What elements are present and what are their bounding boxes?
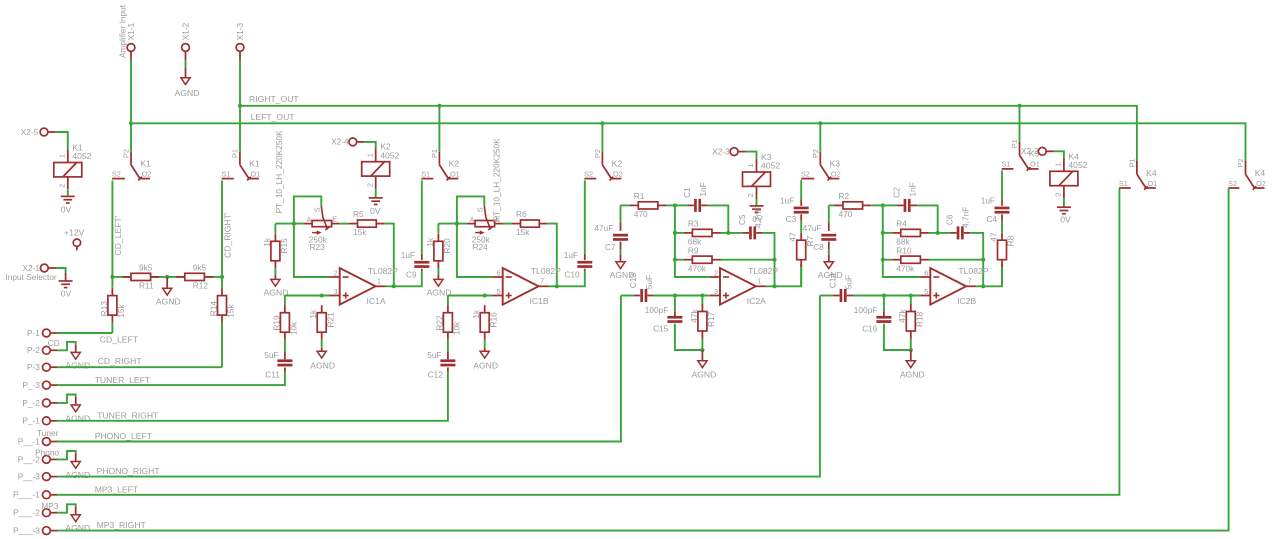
svg-text:AGND: AGND [65, 523, 90, 533]
svg-text:TUNER_RIGHT: TUNER_RIGHT [97, 411, 159, 421]
svg-text:Amplifier Input: Amplifier Input [117, 4, 127, 58]
junction [320, 293, 324, 297]
svg-text:R23: R23 [310, 242, 326, 252]
wire S loop R24 [457, 196, 484, 223]
net CD_LEFT_prime [111, 181, 113, 288]
wire LEFT_OUT to K2 P2 [601, 123, 603, 151]
net LEFT_OUT [131, 123, 1246, 162]
label MP3 [41, 501, 58, 511]
svg-text:2: 2 [1054, 193, 1063, 197]
wire X1-1 to LEFT_OUT [130, 60, 132, 124]
svg-text:O2: O2 [142, 169, 152, 178]
ground AGND R15 [264, 275, 289, 297]
svg-text:R15: R15 [279, 238, 289, 254]
wire R8 bottom gap [1001, 267, 1003, 286]
capacitor C13 [628, 273, 654, 302]
svg-text:470k: 470k [688, 263, 707, 273]
wire X2-1 to 0V [56, 268, 66, 273]
op-amp IC2A [710, 266, 779, 306]
switch K1 P2/S2/O2 [112, 149, 151, 180]
wire R15 to AGND [274, 268, 276, 275]
svg-text:1uF: 1uF [401, 250, 415, 260]
switch K2 P1/S1/O1 [421, 149, 460, 180]
svg-text:P-1: P-1 [27, 328, 40, 338]
svg-text:AGND: AGND [156, 297, 181, 307]
svg-text:470: 470 [839, 209, 853, 219]
svg-text:47uF: 47uF [594, 223, 613, 233]
svg-text:R17: R17 [706, 311, 716, 327]
ground 0V K1 [61, 196, 75, 214]
wire X2-3 to K3 coil [746, 152, 757, 159]
svg-text:4052: 4052 [761, 161, 780, 171]
wire corner to C8 [828, 205, 830, 222]
svg-text:TL082P: TL082P [748, 266, 778, 276]
svg-text:Tuner: Tuner [37, 428, 59, 438]
svg-text:O1: O1 [1148, 179, 1158, 188]
resistor R7 [788, 232, 815, 267]
resistor R2 [835, 191, 872, 219]
label Input Selector [6, 272, 57, 282]
connector pin P_-3 [22, 380, 57, 390]
junction [981, 258, 985, 262]
switch K4 P2/S2/O2 [1228, 158, 1266, 189]
capacitor C5 [737, 207, 763, 240]
svg-text:C14: C14 [827, 273, 837, 289]
svg-text:O2: O2 [613, 169, 623, 178]
resistor R18 [897, 304, 924, 339]
svg-text:C8: C8 [813, 242, 824, 252]
net MP3_RIGHT [57, 189, 1229, 531]
junction [110, 275, 114, 279]
wire noninv input IC1A [285, 295, 330, 297]
capacitor C1 [682, 182, 708, 212]
svg-text:PT_10_LH_220K250K: PT_10_LH_220K250K [274, 130, 284, 213]
wire R1 left [621, 204, 630, 206]
svg-text:K1: K1 [249, 158, 260, 168]
junction [909, 293, 913, 297]
svg-text:X2-2: X2-2 [1021, 146, 1039, 156]
svg-text:PHONO_LEFT: PHONO_LEFT [95, 431, 153, 441]
svg-text:P-2: P-2 [27, 345, 40, 355]
wire R17 top [701, 296, 703, 305]
svg-text:R24: R24 [473, 242, 489, 252]
capacitor C16 [854, 305, 892, 333]
resistor R5 [349, 209, 385, 237]
wire inverting input IC1A [294, 224, 330, 277]
wire RIGHT_OUT to K1 P1 [239, 106, 241, 152]
resistor R4 [892, 219, 929, 247]
svg-text:7: 7 [540, 277, 544, 286]
svg-text:IC2B: IC2B [957, 296, 976, 306]
svg-text:R8: R8 [1006, 235, 1016, 246]
junction [881, 258, 885, 262]
wire R21 to AGND [321, 340, 323, 348]
op-amp IC2B [920, 266, 989, 306]
op-amp IC1A [330, 266, 399, 306]
ground AGND R16 [473, 348, 498, 370]
svg-text:15k: 15k [116, 303, 126, 317]
svg-text:100pF: 100pF [854, 305, 878, 315]
svg-text:X1-3: X1-3 [235, 22, 245, 40]
svg-text:X2-5: X2-5 [21, 127, 39, 137]
wire S loop R23 [294, 196, 321, 223]
junction [555, 284, 559, 288]
svg-text:2: 2 [334, 268, 338, 277]
wire R17 bottom [701, 339, 703, 351]
svg-text:K1: K1 [140, 158, 151, 168]
ground AGND C7 [610, 254, 635, 280]
svg-text:1: 1 [365, 153, 374, 157]
connector pin X2-1 [22, 263, 56, 273]
junction [392, 284, 396, 288]
svg-text:R1: R1 [634, 191, 645, 201]
svg-text:CD_LEFT': CD_LEFT' [113, 215, 123, 255]
resistor R16 [471, 305, 498, 340]
wire R19 to cap [284, 340, 286, 352]
svg-text:C9: C9 [406, 270, 417, 280]
wire feedback rail IC2B [883, 205, 920, 277]
wire C8 to AGND [828, 249, 830, 254]
wire C6 corner [970, 233, 983, 260]
wire R2 left [829, 204, 835, 206]
capacitor C11 [264, 350, 292, 379]
wire C16 bottom [884, 324, 911, 350]
svg-text:4052: 4052 [72, 151, 91, 161]
svg-text:AGND: AGND [65, 470, 90, 480]
svg-text:1nF: 1nF [908, 182, 918, 196]
wire X2-4 to K2 coil [365, 142, 376, 149]
svg-text:AGND: AGND [310, 360, 335, 370]
potentiometer R24 [467, 206, 503, 252]
svg-text:AGND: AGND [175, 88, 200, 98]
capacitor C12 [427, 350, 455, 379]
wire X2-1 pin lead [65, 273, 67, 281]
wire K2 coil to 0V [375, 189, 377, 198]
wire R9 right [721, 259, 775, 261]
switch K3 P2/S2/O2 [801, 149, 841, 180]
connector pin X2-3 [712, 146, 746, 156]
svg-text:O2: O2 [831, 169, 841, 178]
wire pot node R20 [438, 223, 466, 225]
svg-text:Input Selector: Input Selector [6, 272, 57, 282]
connector pin X1-2 [181, 22, 191, 59]
svg-text:10k: 10k [452, 321, 462, 335]
svg-text:4052: 4052 [380, 150, 399, 160]
svg-text:O2: O2 [1256, 179, 1266, 188]
label Tuner [37, 428, 59, 438]
net TUNER_LEFT [57, 372, 285, 386]
svg-text:CD: CD [48, 338, 60, 348]
svg-text:LEFT_OUT: LEFT_OUT [251, 112, 296, 122]
ground jog AGND MP3 [57, 504, 90, 533]
svg-text:X2-3: X2-3 [712, 146, 730, 156]
junction [1017, 104, 1021, 108]
resistor R9 [684, 245, 721, 273]
svg-text:S1: S1 [222, 169, 231, 178]
svg-text:R6: R6 [516, 209, 527, 219]
svg-text:AGND: AGND [691, 370, 716, 380]
wire pot E to R6 [503, 223, 512, 225]
svg-text:C3: C3 [786, 214, 797, 224]
ground AGND divider [156, 277, 181, 307]
wire C16 drop [883, 296, 885, 312]
net PHONO_LEFT [57, 296, 621, 442]
svg-text:C2: C2 [891, 187, 901, 198]
svg-text:S1: S1 [1002, 160, 1011, 169]
label CD_LEFT' [113, 215, 123, 255]
ground AGND C8 [818, 254, 843, 280]
svg-text:TL082P: TL082P [368, 266, 398, 276]
ground AGND R20 [427, 275, 452, 297]
label CD [48, 338, 60, 348]
junction [818, 121, 822, 125]
net RIGHT_OUT [240, 106, 1137, 162]
svg-text:O1: O1 [251, 169, 261, 178]
wire output IC2B [976, 264, 1002, 286]
wire C7 to AGND [620, 249, 622, 254]
svg-text:C6: C6 [944, 214, 954, 225]
wire X2-5 to K1 coil [56, 132, 68, 149]
label CD_LEFT [100, 335, 139, 345]
label Amplifier Input [117, 4, 127, 58]
svg-text:15k: 15k [516, 227, 530, 237]
svg-text:3: 3 [334, 287, 338, 296]
junction [936, 231, 940, 235]
svg-text:1k: 1k [262, 237, 272, 247]
wire X2-2 to K4 coil [1054, 151, 1064, 158]
wire LEFT_OUT to K1 P2 [130, 123, 132, 151]
connector pin X2-2 [1021, 146, 1054, 156]
wire rail to R10 [883, 259, 893, 261]
wire R18 bottom [910, 339, 912, 351]
junction [981, 284, 985, 288]
svg-text:C5: C5 [737, 214, 747, 225]
label PHONO_LEFT [95, 431, 153, 441]
ground 0V K4 [1057, 207, 1071, 224]
svg-text:P__-3: P__-3 [18, 472, 41, 482]
svg-text:R10: R10 [896, 245, 912, 255]
capacitor C6 [944, 207, 970, 240]
svg-text:47: 47 [788, 232, 798, 242]
junction [772, 284, 776, 288]
svg-text:2: 2 [57, 184, 66, 188]
connector pin X2-4 [331, 137, 365, 147]
svg-text:15k: 15k [353, 227, 367, 237]
switch K1 P1/S1/O1 [222, 149, 261, 180]
label MP3_RIGHT [97, 520, 147, 530]
svg-text:S: S [313, 207, 322, 212]
svg-text:R11: R11 [139, 281, 154, 291]
svg-text:C4: C4 [986, 214, 997, 224]
svg-text:K2: K2 [449, 158, 460, 168]
svg-text:S2: S2 [801, 169, 810, 178]
junction [129, 121, 133, 125]
svg-text:P-3: P-3 [27, 362, 40, 372]
ground 0V K3 [750, 206, 764, 224]
junction [220, 275, 224, 279]
relay coil K3 [743, 152, 781, 199]
svg-text:1: 1 [746, 164, 755, 168]
svg-text:S: S [476, 207, 485, 212]
svg-text:R19: R19 [271, 315, 281, 331]
wire RIGHT_OUT to K2 P1 [438, 106, 440, 152]
junction [238, 104, 242, 108]
ground jog AGND CD [57, 342, 90, 371]
resistor R6 [512, 209, 548, 237]
relay coil K1 [54, 143, 92, 190]
svg-text:P2: P2 [811, 149, 820, 158]
ground 0V X2-1 [59, 281, 73, 298]
svg-text:470k: 470k [896, 263, 915, 273]
resistor R11 [123, 263, 160, 291]
resistor R15 [262, 234, 289, 268]
connector pin X1-3 [235, 22, 245, 59]
switch K4 P1/S1/O1 [1119, 158, 1157, 189]
svg-text:RIGHT_OUT: RIGHT_OUT [249, 94, 299, 104]
wire output IC1B [549, 271, 585, 286]
connector pin P-3 [27, 362, 57, 372]
resistor R20 [425, 234, 452, 268]
net CD_LEFT [57, 332, 112, 334]
svg-text:C13: C13 [628, 273, 638, 289]
svg-text:P2: P2 [122, 149, 131, 158]
switch K2 P2/S2/O2 [584, 149, 623, 180]
wire RIGHT_OUT to K3 P1 [1019, 106, 1021, 142]
svg-text:2: 2 [714, 268, 718, 277]
svg-text:5uF: 5uF [844, 275, 854, 289]
label PT_10_LH_220K250K (R23) [274, 130, 284, 213]
svg-text:TUNER_LEFT: TUNER_LEFT [95, 375, 151, 385]
svg-text:C1: C1 [682, 187, 692, 198]
resistor R17 [689, 304, 716, 339]
wire R20 to AGND [437, 268, 439, 275]
junction [909, 348, 913, 352]
svg-text:6: 6 [924, 268, 928, 277]
net CD_RIGHT [57, 366, 222, 368]
wire C13 left [621, 295, 634, 297]
wire R6 to output [548, 224, 557, 287]
wire R10 right [929, 259, 983, 261]
junction [600, 121, 604, 125]
svg-text:1: 1 [377, 277, 381, 286]
wire pot E to R5 [340, 223, 349, 225]
svg-text:R16: R16 [488, 312, 498, 328]
op-amp IC1B [493, 266, 562, 306]
svg-text:100pF: 100pF [645, 305, 669, 315]
wire R14 to CD_RIGHT [221, 323, 223, 368]
ground AGND R21 [310, 348, 335, 370]
svg-text:47: 47 [988, 232, 998, 242]
junction [881, 203, 885, 207]
svg-text:4052: 4052 [1068, 160, 1087, 170]
svg-text:C15: C15 [653, 323, 669, 333]
svg-text:MP3_LEFT: MP3_LEFT [95, 484, 139, 494]
svg-text:AGND: AGND [473, 360, 498, 370]
svg-text:IC1A: IC1A [367, 296, 386, 306]
svg-text:1k: 1k [308, 309, 318, 319]
svg-text:X1-1: X1-1 [126, 22, 136, 40]
svg-text:PT_10_LH_220K250K: PT_10_LH_220K250K [492, 138, 502, 221]
svg-text:AGND: AGND [900, 370, 925, 380]
connector pin P-2 [27, 345, 57, 355]
wire noninv node IC2B [853, 295, 920, 297]
svg-text:1k: 1k [471, 309, 481, 319]
connector pin P_-1 [22, 416, 57, 426]
label RIGHT_OUT [249, 94, 299, 104]
net PHONO_RIGHT [57, 296, 820, 477]
svg-text:C7: C7 [605, 242, 616, 252]
svg-text:K4: K4 [1146, 168, 1157, 178]
svg-text:X2-4: X2-4 [331, 137, 349, 147]
wire C10 to switch [584, 180, 586, 253]
net TUNER_RIGHT [57, 372, 448, 421]
label CD_RIGHT' [223, 212, 233, 258]
capacitor C10 [564, 250, 593, 280]
svg-text:R22: R22 [434, 315, 444, 331]
svg-text:X1-2: X1-2 [181, 22, 191, 40]
svg-text:P1: P1 [430, 149, 439, 158]
wire C5 corner [763, 233, 775, 260]
wire C9 to switch [421, 180, 423, 253]
wire R22 drop [447, 296, 449, 306]
resistor R8 [988, 232, 1015, 267]
svg-text:MP3: MP3 [41, 501, 58, 511]
wire C1 to corner [708, 205, 729, 233]
svg-text:R12: R12 [193, 281, 209, 291]
label Phono [35, 448, 59, 458]
capacitor C7 [594, 222, 628, 252]
svg-text:0V: 0V [370, 206, 381, 216]
svg-text:P_-3: P_-3 [22, 380, 40, 390]
wire node to C2 [883, 204, 897, 206]
svg-text:P1: P1 [1128, 158, 1137, 167]
svg-text:A: A [470, 215, 475, 224]
junction [437, 104, 441, 108]
svg-text:0V: 0V [61, 205, 72, 215]
label TUNER_RIGHT [97, 411, 159, 421]
svg-text:+12V: +12V [64, 227, 85, 237]
junction [700, 348, 704, 352]
svg-text:CD_RIGHT: CD_RIGHT [98, 356, 143, 366]
wire divider row [112, 276, 222, 278]
svg-text:1: 1 [57, 154, 66, 158]
wire inverting input IC1B [457, 224, 493, 277]
svg-text:C16: C16 [862, 323, 878, 333]
wire K1 coil to 0V [67, 190, 69, 196]
net CD_RIGHT_prime [221, 181, 223, 288]
svg-text:P___-2: P___-2 [13, 508, 40, 518]
net MP3_LEFT [57, 189, 1119, 495]
wire R16 to AGND [484, 340, 486, 348]
junction [455, 222, 459, 226]
svg-text:1uF: 1uF [780, 196, 794, 206]
junction [772, 258, 776, 262]
wire R3 right [721, 232, 743, 234]
svg-text:TL082P: TL082P [531, 266, 561, 276]
svg-text:K4: K4 [1255, 168, 1266, 178]
svg-text:5uF: 5uF [427, 350, 441, 360]
label CD_RIGHT [98, 356, 143, 366]
wire noninv node IC2A [654, 295, 710, 297]
junction [483, 293, 487, 297]
wire R18 top [910, 296, 912, 305]
ground AGND R18 [900, 350, 925, 380]
supply +12V [64, 227, 85, 250]
resistor R19 [271, 305, 298, 340]
svg-text:3: 3 [714, 287, 718, 296]
wire pot node R15 [275, 223, 303, 225]
resistor R22 [434, 305, 461, 340]
